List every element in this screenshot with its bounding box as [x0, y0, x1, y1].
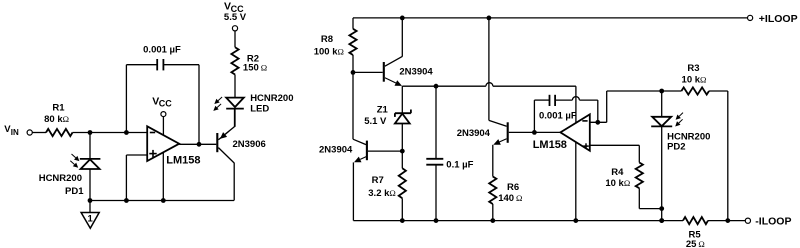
svg-text:100 kΩ: 100 kΩ — [314, 46, 344, 57]
svg-text:Z1: Z1 — [377, 104, 389, 115]
svg-text:1: 1 — [88, 213, 94, 224]
svg-text:10 kΩ: 10 kΩ — [605, 178, 630, 189]
svg-text:R6: R6 — [507, 182, 519, 193]
svg-text:PD1: PD1 — [65, 186, 84, 197]
svg-text:+ILOOP: +ILOOP — [759, 13, 798, 25]
svg-text:LED: LED — [250, 103, 269, 114]
svg-text:2N3904: 2N3904 — [319, 145, 353, 156]
svg-text:140 Ω: 140 Ω — [498, 193, 522, 204]
svg-text:R1: R1 — [52, 103, 65, 114]
svg-text:R8: R8 — [321, 34, 333, 45]
svg-text:0.1 µF: 0.1 µF — [446, 159, 473, 170]
svg-text:CC: CC — [159, 99, 172, 109]
svg-text:0.001 µF: 0.001 µF — [539, 110, 577, 121]
svg-text:-ILOOP: -ILOOP — [755, 215, 791, 227]
svg-text:5.5 V: 5.5 V — [224, 12, 247, 23]
svg-text:PD2: PD2 — [667, 142, 685, 153]
svg-text:HCNR200: HCNR200 — [39, 173, 82, 184]
svg-text:LM158: LM158 — [533, 139, 567, 151]
svg-text:2N3904: 2N3904 — [399, 66, 433, 77]
svg-text:R4: R4 — [611, 167, 624, 178]
svg-text:R7: R7 — [372, 175, 384, 186]
svg-text:25 Ω: 25 Ω — [686, 239, 705, 248]
svg-text:3.2 kΩ: 3.2 kΩ — [368, 188, 396, 199]
svg-text:2N3904: 2N3904 — [457, 128, 491, 139]
svg-text:10 kΩ: 10 kΩ — [682, 74, 707, 85]
svg-text:0.001 µF: 0.001 µF — [143, 44, 181, 55]
svg-text:80 kΩ: 80 kΩ — [44, 114, 69, 125]
svg-text:150 Ω: 150 Ω — [243, 63, 267, 74]
svg-text:LM158: LM158 — [166, 154, 200, 166]
svg-text:R3: R3 — [687, 63, 699, 74]
svg-text:2N3906: 2N3906 — [233, 139, 266, 150]
svg-text:5.1 V: 5.1 V — [364, 116, 387, 127]
svg-text:IN: IN — [11, 128, 19, 137]
